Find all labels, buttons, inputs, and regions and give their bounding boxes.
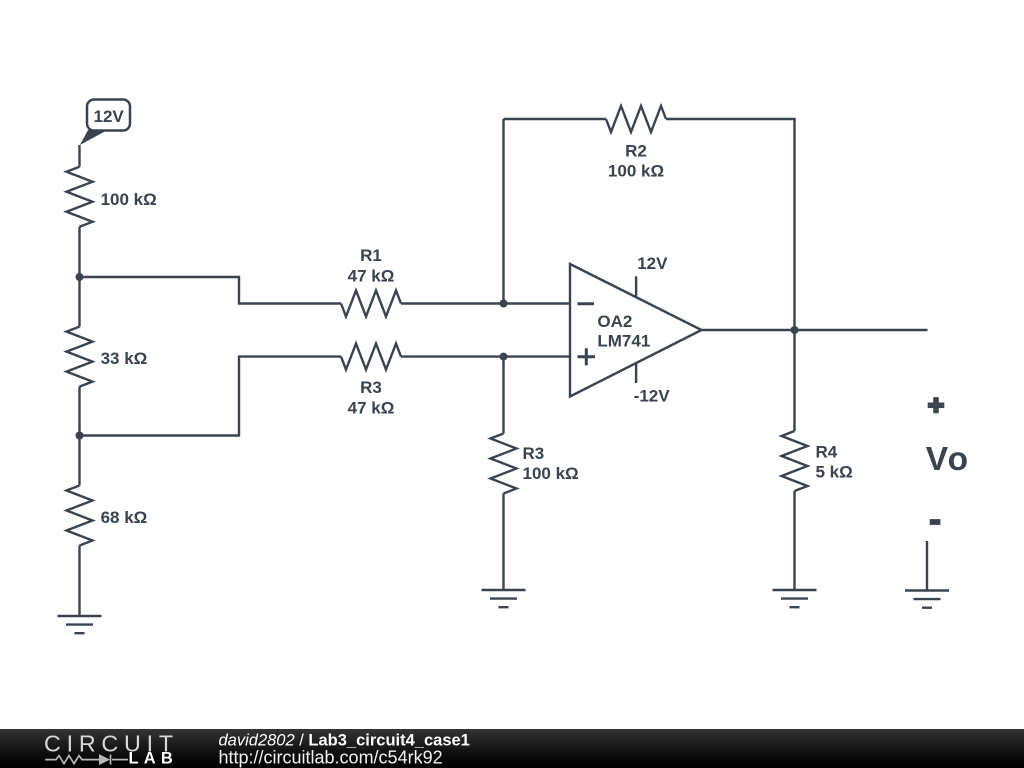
svg-text:47 kΩ: 47 kΩ xyxy=(348,398,395,417)
svg-text:47 kΩ: 47 kΩ xyxy=(348,266,395,285)
svg-text:5 kΩ: 5 kΩ xyxy=(816,463,853,482)
svg-text:R3: R3 xyxy=(360,378,382,397)
svg-text:12V: 12V xyxy=(94,107,125,126)
svg-text:100 kΩ: 100 kΩ xyxy=(101,190,157,209)
svg-text:OA2: OA2 xyxy=(597,312,632,331)
svg-text:http://circuitlab.com/c54rk92: http://circuitlab.com/c54rk92 xyxy=(219,748,443,768)
svg-text:R1: R1 xyxy=(360,246,382,265)
svg-text:33 kΩ: 33 kΩ xyxy=(101,349,148,368)
svg-text:R3: R3 xyxy=(523,444,545,463)
svg-text:12V: 12V xyxy=(637,254,668,273)
svg-text:LM741: LM741 xyxy=(597,332,650,351)
svg-text:Vo: Vo xyxy=(926,441,970,478)
svg-text:-12V: -12V xyxy=(634,387,671,406)
svg-text:R2: R2 xyxy=(625,142,647,161)
svg-text:68 kΩ: 68 kΩ xyxy=(101,508,148,527)
svg-text:100 kΩ: 100 kΩ xyxy=(523,464,579,483)
svg-text:100 kΩ: 100 kΩ xyxy=(608,161,664,180)
svg-text:R4: R4 xyxy=(816,443,838,462)
svg-text:LAB: LAB xyxy=(129,750,179,768)
